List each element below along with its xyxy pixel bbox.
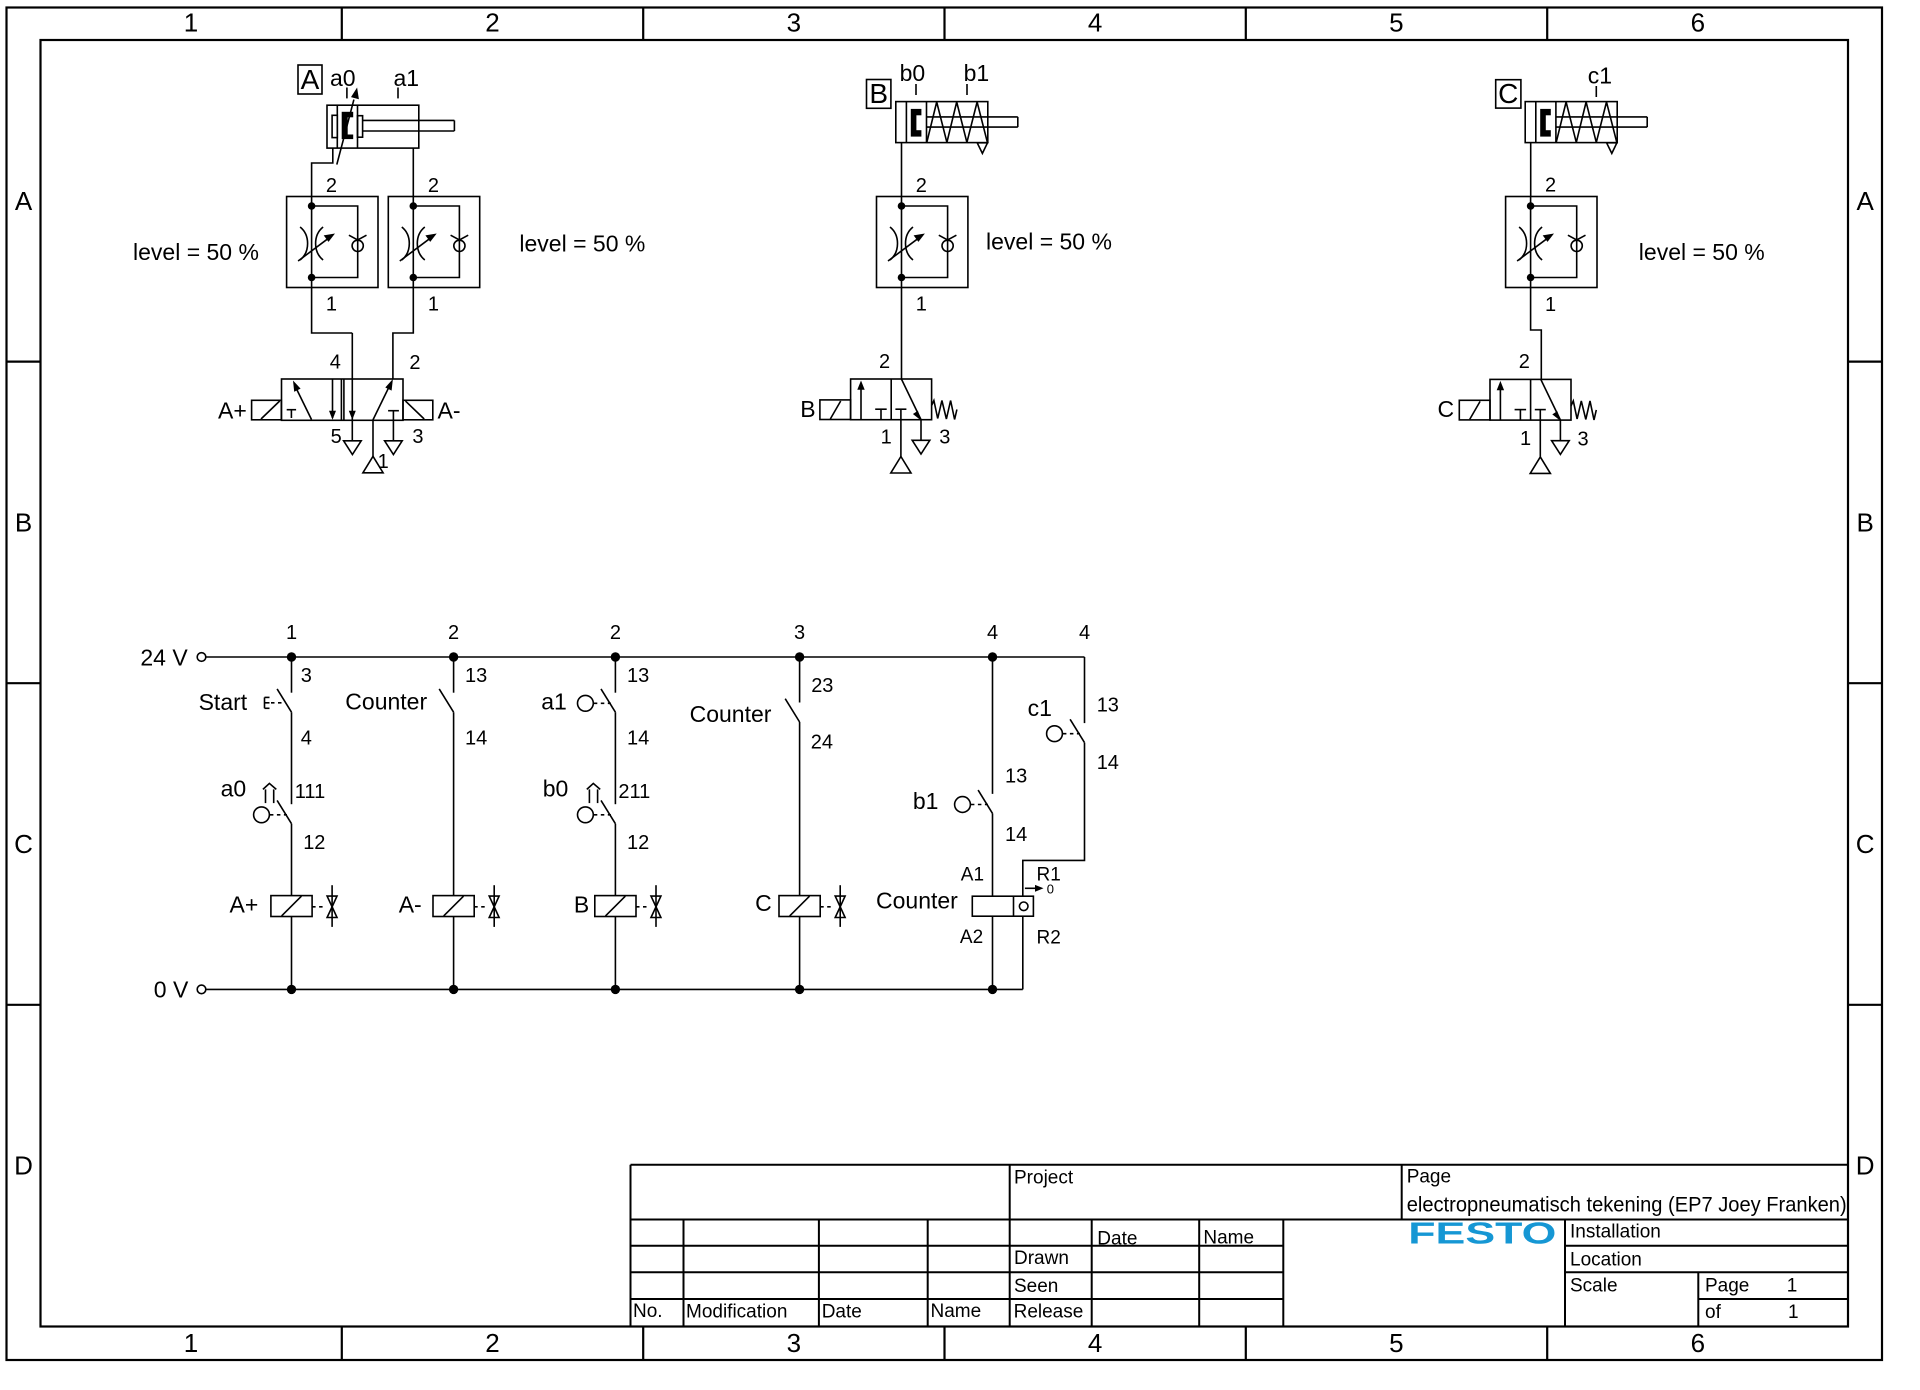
svg-text:2: 2: [326, 175, 337, 197]
wire cylinder A left port to flow valve A1: [312, 148, 333, 196]
a1 reed contact: [601, 689, 615, 712]
svg-text:13: 13: [627, 665, 649, 687]
svg-text:a1: a1: [394, 65, 420, 91]
svg-text:B: B: [15, 507, 32, 537]
wire: [799, 657, 801, 703]
svg-text:1: 1: [916, 294, 927, 316]
svg-text:1: 1: [1787, 1276, 1798, 1297]
wire valve A port 1: [372, 420, 374, 456]
flow control valve A1: [287, 197, 378, 288]
svg-text:A+: A+: [218, 398, 247, 424]
svg-text:Date: Date: [1097, 1229, 1137, 1250]
svg-text:c1: c1: [1588, 62, 1612, 88]
svg-text:3: 3: [939, 427, 950, 449]
svg-text:14: 14: [465, 727, 487, 749]
svg-text:Date: Date: [822, 1302, 862, 1323]
svg-text:C: C: [1438, 396, 1455, 422]
svg-text:level = 50 %: level = 50 %: [1639, 239, 1765, 265]
svg-text:2: 2: [879, 351, 890, 373]
svg-text:B: B: [1857, 507, 1874, 537]
svg-text:a0: a0: [221, 776, 247, 802]
a0 actuation arrow: [263, 783, 276, 803]
Start pushbutton actuator: [265, 697, 285, 708]
svg-text:0 V: 0 V: [154, 977, 189, 1003]
svg-text:B: B: [869, 78, 888, 109]
Start switch contact: [277, 689, 291, 712]
label box A: [298, 65, 322, 94]
wire: [453, 917, 455, 990]
svg-text:4: 4: [301, 727, 312, 749]
svg-text:Modification: Modification: [686, 1302, 787, 1323]
svg-text:C: C: [1856, 829, 1875, 859]
coil A-: [433, 885, 499, 927]
wire: [291, 824, 293, 896]
wire cylinder A right port to flow valve A2: [412, 148, 414, 196]
sensor tick c1: [1595, 86, 1597, 97]
svg-text:5: 5: [1389, 8, 1403, 38]
cylinder A: [327, 105, 454, 148]
svg-text:4: 4: [1079, 622, 1090, 644]
svg-text:b0: b0: [900, 60, 926, 86]
wire: [453, 712, 455, 895]
svg-text:6: 6: [1691, 8, 1705, 38]
svg-text:2: 2: [1519, 351, 1530, 373]
wire: [992, 657, 994, 794]
svg-text:Counter: Counter: [690, 701, 772, 727]
svg-text:1: 1: [378, 451, 389, 473]
svg-text:A+: A+: [230, 892, 259, 918]
junction dots 0V rail: [287, 985, 997, 994]
cylinder C: [1525, 102, 1647, 154]
svg-text:level = 50 %: level = 50 %: [519, 231, 645, 257]
sensor tick b0: [915, 84, 917, 95]
svg-text:4: 4: [330, 352, 341, 374]
5/2-way valve A: [282, 333, 404, 441]
wire: [992, 916, 994, 989]
svg-text:3: 3: [787, 8, 801, 38]
svg-text:4: 4: [987, 622, 998, 644]
24V supply rail: [197, 653, 1084, 662]
flow control valve A2: [388, 197, 479, 288]
wire valve C port 1: [1539, 420, 1541, 457]
svg-text:23: 23: [811, 675, 833, 697]
wire: [614, 917, 616, 990]
svg-text:a1: a1: [541, 689, 567, 715]
svg-text:2: 2: [485, 8, 499, 38]
svg-text:13: 13: [1005, 765, 1027, 787]
svg-text:A2: A2: [960, 927, 983, 948]
wire: [291, 657, 293, 693]
svg-text:1: 1: [1788, 1302, 1799, 1323]
wire: [992, 813, 994, 896]
supply 1 valve B: [891, 457, 911, 474]
svg-text:D: D: [1856, 1151, 1875, 1181]
svg-text:14: 14: [627, 727, 649, 749]
svg-text:2: 2: [1545, 175, 1556, 197]
svg-text:D: D: [14, 1151, 33, 1181]
svg-text:12: 12: [627, 832, 649, 854]
svg-text:Seen: Seen: [1014, 1276, 1058, 1297]
svg-text:0: 0: [1047, 882, 1054, 897]
exhaust 3 valve A: [385, 441, 403, 455]
svg-text:b1: b1: [964, 60, 990, 86]
sensor tick a1: [397, 88, 399, 99]
svg-text:1: 1: [286, 622, 297, 644]
svg-text:14: 14: [1097, 752, 1119, 774]
svg-text:Page: Page: [1705, 1276, 1749, 1297]
flow control valve B: [877, 197, 968, 288]
svg-text:A-: A-: [438, 397, 461, 423]
svg-text:C: C: [755, 890, 772, 916]
coil B: [595, 885, 661, 927]
b0 actuation arrow: [587, 783, 600, 803]
exhaust 3 valve C: [1552, 441, 1570, 455]
svg-text:R2: R2: [1037, 927, 1061, 948]
wire flow valve C to valve C port 2: [1531, 288, 1542, 380]
solenoid A-: [403, 400, 433, 420]
Counter contact 23/24: [785, 699, 799, 722]
Counter relay box: [972, 896, 1033, 916]
svg-text:1: 1: [1520, 428, 1531, 450]
svg-text:c1: c1: [1028, 695, 1052, 721]
svg-text:24: 24: [811, 731, 833, 753]
svg-text:Page: Page: [1407, 1167, 1451, 1188]
wire: [453, 657, 455, 693]
svg-text:2: 2: [428, 175, 439, 197]
wire flow valve A1 to valve port 4: [312, 288, 353, 334]
sensor tick b1: [966, 84, 968, 95]
wire: [1084, 657, 1086, 723]
svg-text:3: 3: [412, 426, 423, 448]
svg-text:1: 1: [326, 294, 337, 316]
3/2-way valve C: [1459, 379, 1596, 421]
svg-text:1: 1: [184, 8, 198, 38]
wire flow valve B to valve B port 2: [901, 288, 903, 380]
wire cylinder B port to flow valve B: [901, 143, 903, 197]
svg-text:2: 2: [448, 622, 459, 644]
svg-text:A-: A-: [399, 892, 422, 918]
wire flow valve A2 to valve port 2: [393, 288, 413, 380]
svg-text:Project: Project: [1014, 1168, 1074, 1189]
svg-text:1: 1: [881, 427, 892, 449]
solenoid A+: [252, 400, 282, 420]
svg-text:A: A: [301, 64, 320, 95]
svg-text:Name: Name: [931, 1301, 982, 1322]
svg-text:Location: Location: [1570, 1250, 1642, 1271]
svg-text:12: 12: [303, 832, 325, 854]
wire cylinder C port to flow valve C: [1530, 143, 1532, 197]
svg-text:C: C: [1498, 78, 1518, 109]
svg-text:5: 5: [1389, 1328, 1403, 1358]
wire R2 to 0V: [1022, 916, 1024, 989]
svg-text:3: 3: [301, 665, 312, 687]
piston magnet A: [342, 112, 354, 139]
flow control valve C: [1506, 197, 1597, 288]
wire: [799, 917, 801, 990]
b0 reed contact: [601, 800, 615, 823]
a0 reed contact: [277, 800, 291, 823]
wire: [614, 824, 616, 896]
svg-text:14: 14: [1005, 824, 1027, 846]
svg-text:Start: Start: [199, 689, 248, 715]
svg-text:2: 2: [610, 622, 621, 644]
wire: [291, 712, 293, 804]
svg-text:2: 2: [485, 1328, 499, 1358]
svg-text:Installation: Installation: [1570, 1222, 1661, 1243]
junction dots 24V rail: [287, 652, 997, 661]
exhaust 3 valve B: [912, 440, 930, 454]
svg-text:3: 3: [794, 622, 805, 644]
supply 1 valve A: [363, 456, 383, 473]
svg-text:electropneumatisch tekening (E: electropneumatisch tekening (EP7 Joey Fr…: [1407, 1194, 1847, 1217]
wire valve C port 3: [1559, 420, 1561, 441]
svg-text:Name: Name: [1203, 1228, 1254, 1249]
svg-text:B: B: [800, 396, 815, 422]
coil A+: [271, 885, 337, 927]
svg-text:of: of: [1705, 1302, 1722, 1323]
svg-text:Drawn: Drawn: [1014, 1248, 1069, 1269]
svg-text:2: 2: [409, 352, 420, 374]
label box B: [867, 80, 891, 109]
R1 reset arrow: [1025, 885, 1044, 892]
svg-text:Counter: Counter: [876, 887, 958, 913]
svg-text:No.: No.: [633, 1301, 663, 1322]
svg-text:111: 111: [295, 781, 325, 803]
svg-text:b1: b1: [913, 788, 939, 814]
wire c1 to counter reset: [1023, 743, 1085, 897]
coil C: [779, 885, 845, 927]
sensor tick a0: [346, 88, 348, 99]
svg-text:A1: A1: [961, 864, 984, 885]
svg-text:Counter: Counter: [345, 689, 427, 715]
0V supply rail: [197, 985, 1023, 994]
svg-text:211: 211: [618, 781, 650, 803]
svg-text:Scale: Scale: [1570, 1276, 1618, 1297]
svg-text:A: A: [1857, 186, 1875, 216]
wire: [614, 712, 616, 804]
svg-text:5: 5: [331, 426, 342, 448]
svg-text:a0: a0: [330, 65, 356, 91]
svg-text:4: 4: [1088, 8, 1102, 38]
svg-text:3: 3: [1578, 429, 1589, 451]
title block: [631, 1165, 1849, 1327]
position indicator arrow a0: [337, 88, 359, 165]
svg-text:13: 13: [1097, 695, 1119, 717]
b1 reed contact: [978, 790, 992, 813]
wire: [614, 657, 616, 693]
svg-text:6: 6: [1691, 1328, 1705, 1358]
svg-text:1: 1: [1545, 294, 1556, 316]
wire: [799, 722, 801, 896]
c1 reed contact: [1070, 719, 1084, 742]
cylinder B: [896, 102, 1018, 154]
wire valve B port 3: [920, 420, 922, 441]
svg-text:3: 3: [787, 1328, 801, 1358]
3/2-way valve B: [820, 379, 957, 421]
svg-text:b0: b0: [543, 776, 569, 802]
exhaust 5 valve A: [344, 441, 362, 455]
svg-text:level = 50 %: level = 50 %: [986, 229, 1112, 255]
wire: [291, 917, 293, 990]
wire valve B port 1: [900, 420, 902, 457]
svg-text:4: 4: [1088, 1328, 1102, 1358]
svg-text:FESTO: FESTO: [1408, 1216, 1556, 1251]
svg-text:1: 1: [184, 1328, 198, 1358]
svg-text:C: C: [14, 829, 33, 859]
svg-text:2: 2: [916, 175, 927, 197]
svg-text:13: 13: [465, 665, 487, 687]
Counter contact 13/14: [439, 689, 453, 712]
svg-text:B: B: [574, 892, 589, 918]
svg-text:level = 50 %: level = 50 %: [133, 239, 259, 265]
svg-text:A: A: [15, 186, 33, 216]
svg-text:24 V: 24 V: [140, 645, 188, 671]
supply 1 valve C: [1530, 457, 1550, 474]
label box C: [1496, 80, 1521, 108]
svg-text:Release: Release: [1014, 1302, 1084, 1323]
svg-text:1: 1: [428, 294, 439, 316]
